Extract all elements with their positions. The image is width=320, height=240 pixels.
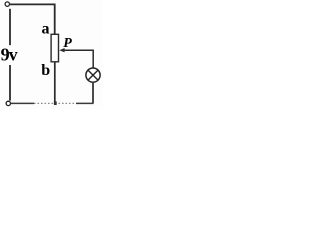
svg-text:P: P bbox=[63, 36, 72, 51]
svg-text:a: a bbox=[42, 20, 50, 37]
svg-text:9v: 9v bbox=[1, 45, 18, 65]
svg-text:b: b bbox=[41, 62, 50, 79]
